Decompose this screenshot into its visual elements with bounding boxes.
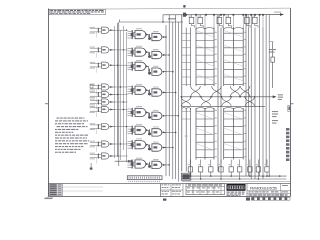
- sheet left border: [47, 9, 49, 197]
- capacitor C1 column right: [269, 41, 277, 88]
- input gate G5: [90, 91, 116, 102]
- resistor R3: [217, 15, 223, 28]
- sheet bottom border: [48, 196, 290, 198]
- vertical bus wires feeding matrix: [166, 15, 178, 182]
- title strip top line: [48, 183, 290, 185]
- input gate G1: [90, 27, 116, 38]
- crossing bowties lower row: [181, 96, 256, 106]
- crossing band bus lower: [182, 105, 265, 107]
- title block left cells: [161, 184, 184, 197]
- core ladder B upper section: [196, 28, 217, 87]
- +12V top bus with arrow: [163, 13, 284, 28]
- notes paragraph text block: [55, 118, 89, 153]
- resistor R6: [252, 15, 258, 28]
- +12V label: [168, 18, 176, 19]
- right border centre tick: [291, 103, 294, 105]
- core ladder C upper section: [224, 28, 246, 87]
- bottom bus wire 1: [182, 175, 287, 177]
- manufacturer logo (black): [227, 184, 246, 196]
- edge connector strip: [127, 176, 162, 180]
- output stub wires to bus: [163, 36, 179, 166]
- wire pair between ladders: [218, 15, 221, 172]
- ground symbol: [90, 163, 93, 170]
- bottom bus wire 2: [182, 178, 287, 180]
- core ladder B lower section: [196, 108, 217, 160]
- sheet right border: [290, 8, 292, 196]
- input gate G10: [90, 153, 116, 164]
- NAND pair row 2: bracket, gate U2A, gate U2B: [128, 46, 167, 59]
- small component box left of G4: [90, 85, 93, 88]
- input gate G3: [90, 62, 116, 73]
- revision table: [49, 184, 103, 196]
- margin ticks below revision table: [45, 197, 53, 200]
- NAND pair row 5: bracket, gate U5A, gate U5B: [128, 106, 167, 119]
- resistor R5: [244, 15, 250, 28]
- input gate G2: [90, 47, 116, 58]
- wire from last gate to connector: [115, 160, 133, 162]
- NAND pair row 7: bracket, gate U7A, gate U7B: [128, 138, 167, 151]
- NAND pair row 8: bracket, gate U8A, gate U8B: [128, 158, 167, 169]
- svg-text:FM MODULE 6C50: FM MODULE 6C50: [250, 186, 277, 190]
- input gate G7: [90, 106, 116, 117]
- crossing bowties upper row: [190, 86, 251, 98]
- title text FM MODULE 6C50: [247, 184, 291, 197]
- input gate G9: [90, 141, 116, 152]
- sheet micro-ruler bottom right: [246, 197, 290, 200]
- core ladder C lower section: [224, 108, 246, 160]
- input gate G4: [90, 84, 116, 95]
- parts/limits table: [186, 184, 225, 195]
- left border centre tick: [45, 103, 48, 105]
- NAND pair row 4: bracket, gate U4A, gate U4B: [128, 84, 167, 96]
- wire routing channel: [115, 22, 128, 166]
- core ladder column A: [181, 15, 191, 180]
- bottom bus wire 3: [182, 181, 291, 183]
- sheet top border: [49, 8, 291, 9]
- NAND pair row 1: bracket, gate U1A, gate U1B: [128, 28, 167, 40]
- right margin vertical text: [286, 128, 289, 161]
- resistor R4: [226, 15, 232, 28]
- +26V label right mid: [272, 111, 278, 124]
- label near bus arrow: [274, 12, 281, 13]
- border zone marker mid-right: [288, 105, 291, 111]
- connector pin numbers: [128, 181, 160, 182]
- notes box (general notes): [49, 9, 105, 14]
- NAND pair row 6: bracket, gate U6A, gate U6B: [128, 124, 167, 136]
- secondary top bus: [119, 20, 183, 23]
- input gate G6: [90, 99, 116, 110]
- resistor R2: [197, 15, 203, 28]
- diode/resistor row bottom of matrix: [188, 160, 269, 180]
- resistor R1: [189, 15, 195, 28]
- NAND pair row 3: bracket, gate U3A, gate U3B: [128, 60, 167, 75]
- registration mark above border: [183, 5, 185, 8]
- crossing band bus with arrow: [182, 94, 283, 100]
- right vertical bus group: [246, 15, 269, 179]
- bottom margin mark: [163, 199, 166, 201]
- input gate G8: [90, 123, 116, 134]
